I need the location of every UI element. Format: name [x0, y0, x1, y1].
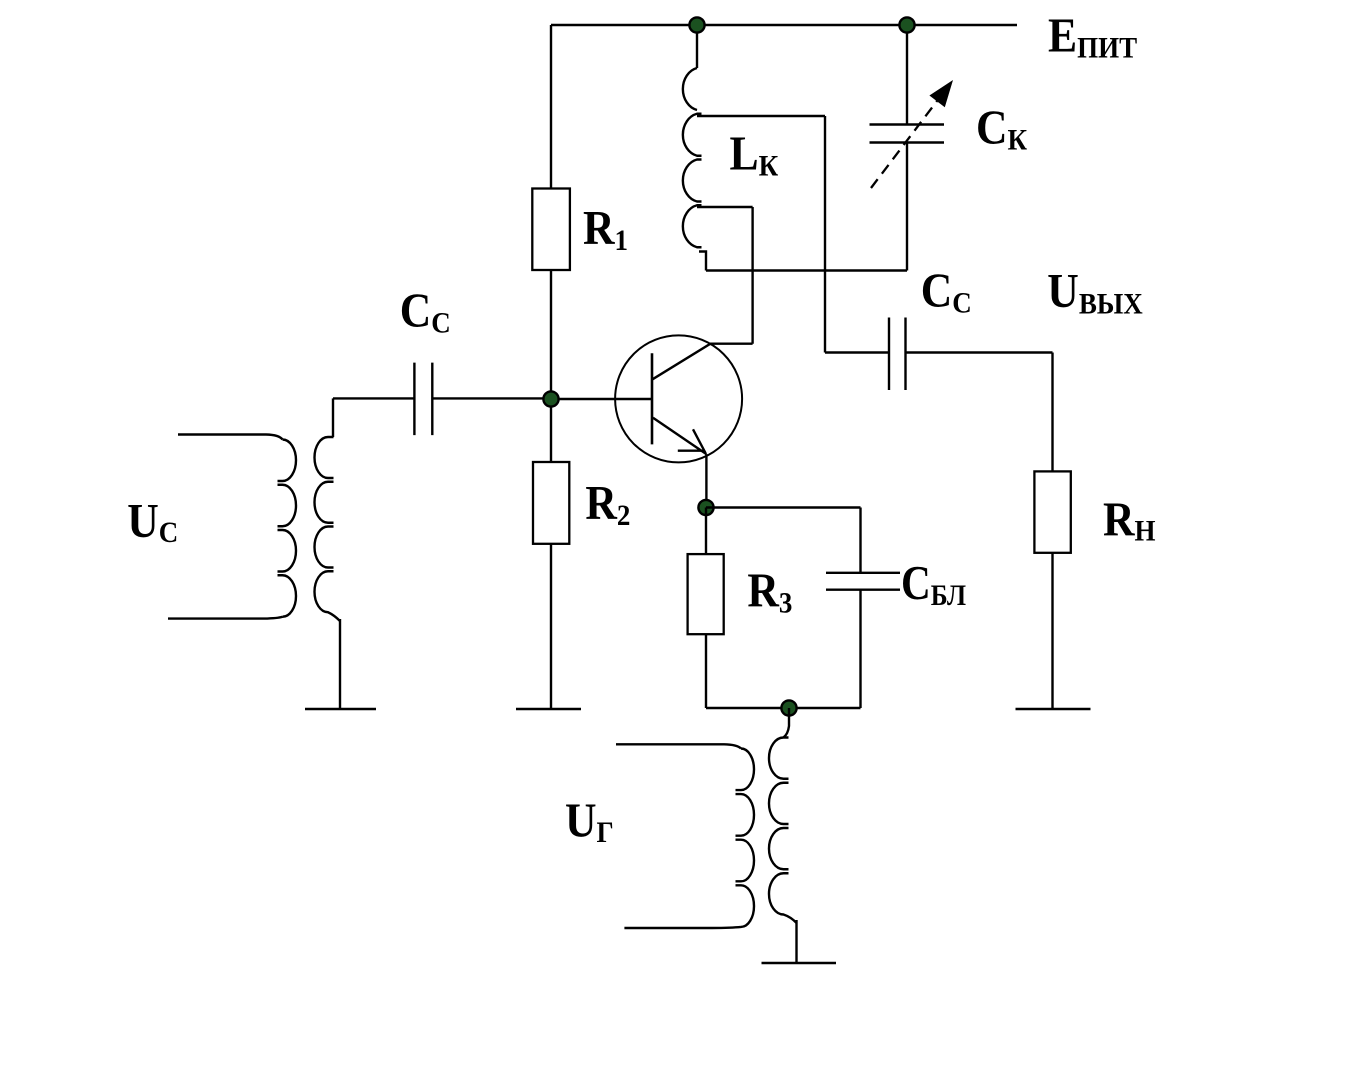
wire Rn to ground: [1051, 553, 1053, 709]
capacitor Cc input plates: [414, 363, 432, 436]
label Uvyh: [1047, 264, 1143, 321]
label Cc input: [400, 283, 451, 339]
variable capacitor arrow Ck: [871, 101, 937, 188]
label Rn: [1103, 492, 1156, 547]
label Ug: [565, 793, 614, 849]
ground under T1: [305, 708, 376, 710]
transformer T1 secondary coil: [315, 437, 341, 621]
label Ck: [976, 100, 1027, 156]
wire emitter node to Cbl: [706, 508, 861, 573]
wire T2 to ground: [795, 920, 797, 963]
wire bottom of tank: [706, 269, 907, 271]
ground under Rn: [1016, 708, 1091, 710]
label R1: [583, 201, 628, 257]
wire T1 secondary to ground: [339, 619, 341, 709]
wire input to Cc: [333, 397, 414, 399]
label Cbl: [901, 556, 966, 613]
wire Ug top terminal: [616, 744, 741, 748]
transistor emitter lead: [653, 418, 706, 454]
transistor collector lead: [653, 344, 753, 380]
inductor Lk: [683, 68, 702, 247]
wire emitter node to R3: [705, 508, 707, 555]
wire R1 branch top: [550, 25, 552, 189]
wire R3 to bottom: [705, 634, 707, 708]
transformer T2 primary coil: [736, 749, 755, 927]
label R2: [585, 476, 630, 532]
transistor base bar: [651, 353, 654, 444]
transformer T2 secondary coil: [769, 738, 797, 924]
wire Cc to base node: [432, 397, 551, 399]
wire Lk bottom jog: [699, 252, 706, 271]
wire T1 secondary top: [332, 398, 334, 437]
transistor emitter arrow: [678, 429, 706, 453]
ground under R2: [516, 708, 581, 710]
wire input top terminal: [178, 435, 283, 440]
node dot Epit-left: [689, 17, 704, 32]
transformer T1 primary coil: [278, 440, 297, 617]
capacitor Ck plates: [870, 125, 945, 143]
resistor Rn: [1034, 471, 1070, 552]
node dot Epit-right: [899, 17, 914, 32]
label Epit: [1048, 8, 1137, 64]
wire R2 to ground: [550, 544, 552, 709]
wire base: [551, 398, 652, 400]
resistor R2: [533, 462, 569, 544]
wire top supply rail: [551, 24, 1017, 26]
capacitor Cbl plates: [826, 573, 900, 590]
wire emitter down: [705, 454, 707, 507]
label R3: [747, 563, 792, 619]
wire Lk tap1 to output: [697, 116, 889, 353]
wire Cbl to bottom: [859, 590, 861, 708]
node dot bottom: [781, 700, 796, 715]
wire emitter bottom rail: [706, 707, 861, 709]
transistor VT circle: [615, 335, 742, 462]
wire input bottom terminal: [168, 617, 283, 619]
wire Cc output to Rn: [906, 353, 1053, 472]
node dot base: [543, 391, 558, 406]
wire Lk tap2 to collector: [697, 207, 753, 344]
wire Lk top stub: [696, 25, 698, 68]
wire Ck branch top: [906, 25, 908, 125]
label Cc output: [921, 263, 972, 319]
wire bottom node to T2: [784, 708, 790, 738]
wire Ck branch bottom: [906, 143, 908, 271]
ground under T2: [762, 962, 837, 964]
capacitor Cc output plates: [889, 318, 906, 391]
node dot emitter: [698, 500, 713, 515]
wire R1 to base node: [550, 270, 552, 462]
resistor R1: [532, 189, 570, 271]
label Uc: [127, 494, 178, 549]
wire Ug bottom terminal: [624, 927, 741, 928]
label Lk: [730, 126, 779, 182]
resistor R3: [688, 554, 724, 634]
